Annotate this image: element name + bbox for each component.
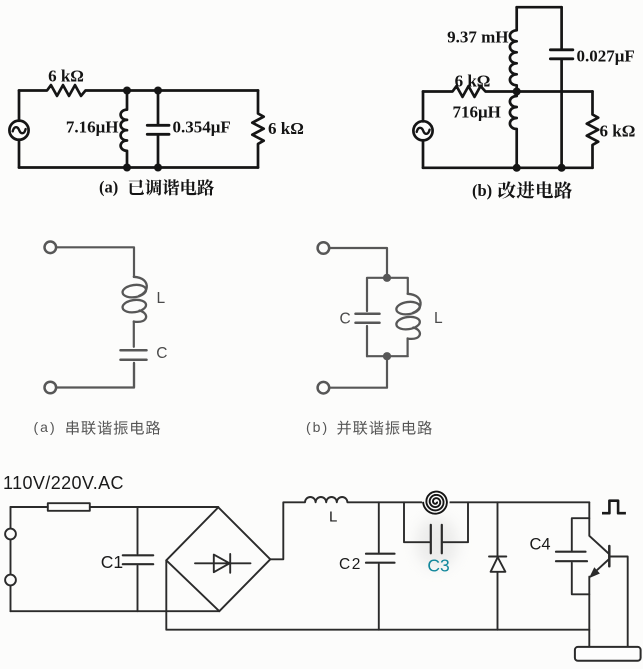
svg-text:9.37 mH: 9.37 mH bbox=[447, 28, 508, 47]
svg-text:L: L bbox=[434, 310, 443, 327]
svg-text:(a): (a) bbox=[99, 178, 118, 197]
svg-text:716μH: 716μH bbox=[453, 103, 501, 122]
svg-text:C1: C1 bbox=[101, 552, 123, 572]
svg-text:6 kΩ: 6 kΩ bbox=[600, 122, 636, 141]
svg-text:L: L bbox=[329, 509, 337, 526]
svg-text:110V/220V.AC: 110V/220V.AC bbox=[3, 473, 124, 493]
svg-text:C2: C2 bbox=[339, 556, 362, 573]
svg-text:0.027μF: 0.027μF bbox=[577, 47, 635, 66]
svg-text:7.16μH: 7.16μH bbox=[66, 118, 119, 137]
svg-text:(b): (b) bbox=[306, 419, 329, 435]
svg-text:L: L bbox=[157, 290, 166, 307]
svg-text:C: C bbox=[156, 345, 167, 362]
svg-text:6 kΩ: 6 kΩ bbox=[268, 119, 304, 138]
svg-text:C: C bbox=[340, 311, 351, 328]
svg-text:C4: C4 bbox=[530, 536, 551, 554]
svg-text:C3: C3 bbox=[427, 556, 449, 576]
svg-text:0.354μF: 0.354μF bbox=[173, 118, 231, 137]
svg-text:(a): (a) bbox=[34, 419, 57, 435]
svg-text:6 kΩ: 6 kΩ bbox=[48, 67, 84, 86]
svg-text:(b): (b) bbox=[472, 181, 492, 200]
svg-text:6 kΩ: 6 kΩ bbox=[455, 72, 491, 91]
